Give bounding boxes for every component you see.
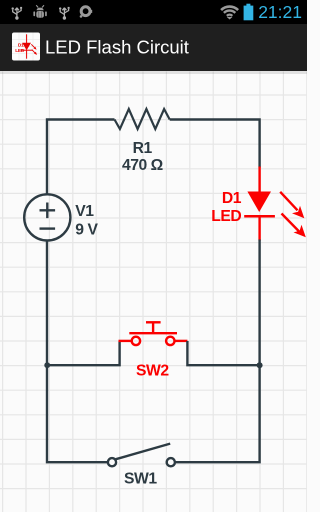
svg-text:LED Flash Circuit: LED Flash Circuit [45, 37, 189, 58]
app icon tile [12, 33, 40, 61]
wire: SW2 right step [187, 341, 259, 365]
wire: LED cathode lead (red) [258, 216, 260, 240]
junction: left node [44, 362, 50, 368]
svg-text:470 Ω: 470 Ω [122, 157, 163, 174]
resistor R1 [115, 109, 170, 129]
status icon: debug bug [33, 5, 46, 17]
wire: left branch V1 to bottom-left corner and rail to SW1 [47, 241, 108, 463]
svg-text:D1: D1 [222, 190, 242, 207]
svg-text:LED: LED [211, 208, 241, 225]
svg-text:D1: D1 [18, 42, 24, 48]
app bar shadow [0, 71, 307, 74]
wire: right branch cathode to bottom-right corner and rail to SW1 [175, 240, 260, 463]
svg-text:21:21: 21:21 [258, 2, 302, 22]
status icon: USB 1 [12, 7, 23, 20]
svg-text:SW1: SW1 [124, 470, 157, 487]
switch SW2 (pushbutton, red) [119, 322, 188, 345]
status icon: USB 2 [59, 7, 70, 20]
switch SW1 (SPST toggle) [108, 444, 175, 467]
wire: LED anode lead (red) [258, 167, 260, 193]
wire: top-left L (V1 top to resistor left lead) [47, 120, 115, 195]
svg-text:R1: R1 [133, 140, 153, 157]
svg-text:SW2: SW2 [136, 363, 169, 380]
wire: SW2 left step [47, 341, 119, 365]
status icon: battery [244, 4, 254, 21]
junction: right node [257, 362, 263, 368]
status icon: disc [80, 7, 93, 18]
svg-text:LED: LED [15, 48, 25, 54]
wire: top-right L (resistor right lead to LED anode branch) [170, 120, 260, 168]
status icon: wifi [221, 7, 238, 20]
status bar [0, 0, 307, 24]
voltage source V1 [24, 194, 70, 240]
svg-text:9 V: 9 V [75, 221, 98, 238]
app bar [0, 24, 307, 71]
svg-text:V1: V1 [75, 203, 94, 220]
LED D1 [244, 192, 306, 238]
